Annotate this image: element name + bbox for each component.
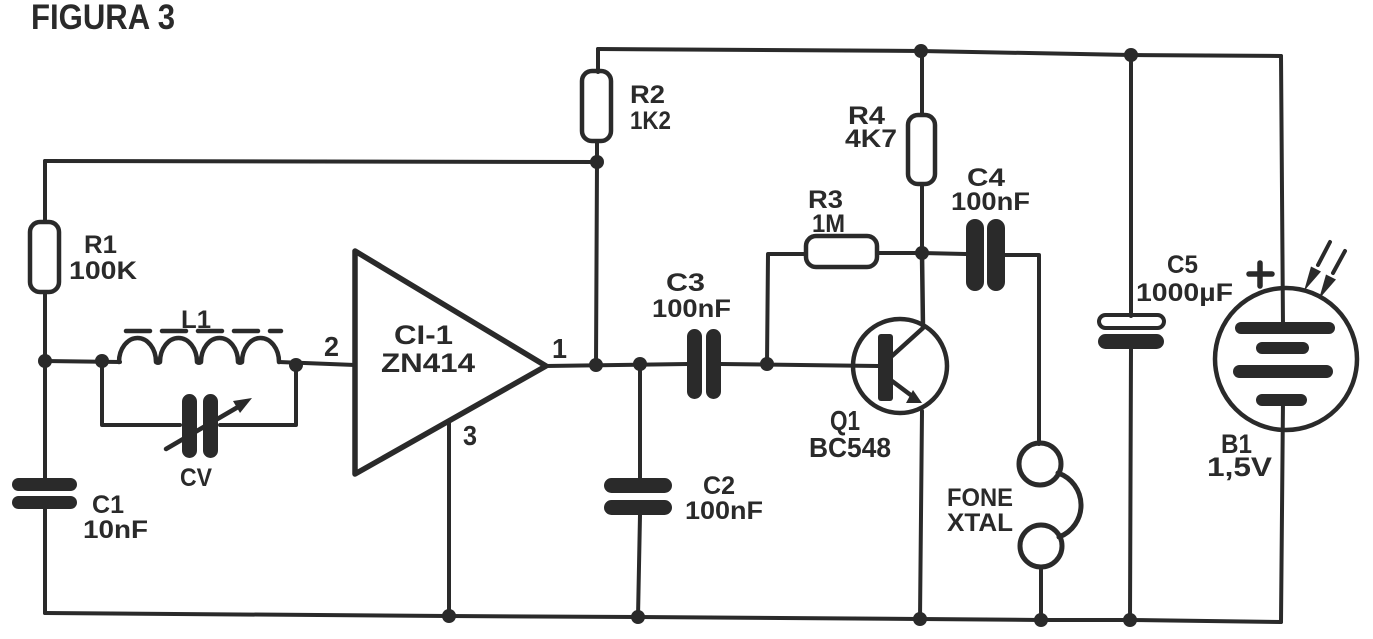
wire R4 top lead (920, 51, 924, 115)
node emitter ground junction (913, 612, 927, 626)
svg-text:100nF: 100nF (685, 497, 763, 525)
svg-text:C5: C5 (1167, 251, 1198, 279)
node collector junction (915, 246, 929, 260)
wire C5 top lead (1129, 55, 1133, 316)
resistor R4 (908, 115, 935, 184)
svg-text:FIGURA 3: FIGURA 3 (31, 0, 175, 37)
B1 light arrow 1 (1318, 242, 1330, 265)
node C2 ground junction (631, 610, 645, 624)
earphone FONE XTAL bottom shell (1020, 525, 1062, 567)
wire B1 bottom lead (1281, 400, 1283, 622)
svg-text:CI-1: CI-1 (394, 320, 453, 350)
capacitor C2 (604, 478, 672, 515)
earphone connecting band (1058, 473, 1081, 537)
svg-text:1: 1 (552, 333, 567, 364)
node CV right junction (289, 358, 303, 372)
node C5 supply junction (1124, 48, 1138, 62)
wire R4 bottom lead (920, 184, 924, 253)
node R4 supply junction (914, 44, 928, 58)
svg-text:1,5V: 1,5V (1207, 452, 1272, 482)
svg-text:100K: 100K (69, 257, 137, 285)
resistor R3 (806, 236, 877, 267)
wire R1 top lead (43, 161, 47, 222)
svg-text:C3: C3 (666, 269, 705, 297)
wire bias horizontal to R1 (45, 161, 597, 162)
node C5 ground junction (1123, 613, 1137, 627)
L1 dashed line (126, 329, 281, 334)
wire B1 top lead (1281, 56, 1283, 327)
wire C1 bottom lead (43, 509, 47, 613)
resistor R1 (30, 222, 59, 292)
capacitor C3 (687, 329, 721, 399)
svg-text:CV: CV (180, 464, 212, 492)
B1 light arrow 2 (1333, 251, 1345, 273)
capacitor C1 (12, 478, 77, 509)
capacitor C4 (966, 219, 1005, 291)
wire R3 left riser (767, 254, 806, 364)
svg-text:1K2: 1K2 (630, 107, 671, 135)
wire pin 1 output (546, 364, 688, 366)
svg-text:R1: R1 (84, 231, 117, 259)
svg-text:4K7: 4K7 (845, 125, 897, 153)
svg-text:L1: L1 (181, 306, 211, 334)
svg-text:3: 3 (463, 420, 477, 451)
wire C4 right lead to earphone (1005, 255, 1039, 444)
transistor Q1 (853, 319, 947, 413)
wire pin 3 to ground (447, 421, 451, 616)
node pin3 ground junction (442, 609, 456, 623)
node R3 bottom junction (760, 357, 774, 371)
Q1 base bar (878, 334, 893, 401)
node output/R2 junction (589, 358, 603, 372)
svg-text:XTAL: XTAL (947, 509, 1013, 537)
wire CV right branch (220, 365, 296, 425)
node CV left junction (95, 354, 109, 368)
svg-text:10nF: 10nF (83, 516, 148, 544)
svg-text:1M: 1M (812, 210, 845, 238)
wire earphone bottom to ground (1039, 567, 1043, 620)
capacitor C5 electrolytic (1099, 315, 1164, 328)
svg-text:C1: C1 (92, 491, 124, 519)
earphone FONE XTAL top shell (1019, 443, 1061, 485)
node R2/R1 bias junction (590, 155, 604, 169)
Q1 emitter lead (892, 381, 912, 396)
wire R1 bottom lead (43, 292, 47, 361)
svg-text:R2: R2 (630, 81, 665, 109)
resistor R2 (582, 71, 611, 141)
wire Q1 emitter to ground (920, 411, 922, 619)
svg-text:2: 2 (324, 331, 339, 362)
wire R3 right lead (877, 251, 922, 255)
wire C2 bottom lead (638, 515, 640, 617)
B1 plate bars (1233, 322, 1335, 406)
wire R2 junction to output (596, 162, 597, 365)
battery B1 solar cell outline (1215, 288, 1357, 430)
variable capacitor CV (182, 394, 218, 458)
wire CV left branch (102, 361, 180, 425)
wire C1 top lead (43, 361, 47, 480)
svg-text:FONE: FONE (947, 484, 1013, 512)
wire top supply rail (598, 49, 1281, 56)
wire tank line right to pin 2 (279, 362, 355, 365)
op-amp U1 CI-1 ZN414 triangle (355, 251, 546, 474)
wire C5 bottom lead (1130, 348, 1131, 620)
inductor L1 (119, 338, 279, 363)
wire tank line left (45, 361, 120, 362)
svg-text:100nF: 100nF (951, 188, 1030, 216)
wire R2 top lead (596, 49, 600, 72)
node C2 top junction (633, 357, 647, 371)
svg-text:100nF: 100nF (652, 295, 731, 323)
wire R2 bottom lead (595, 141, 599, 162)
wire C4 left lead (922, 253, 966, 254)
node tank left junction (38, 354, 52, 368)
node earphone ground junction (1034, 613, 1048, 627)
B1 plus label (1249, 271, 1272, 277)
wire C3 to Q1 base (721, 364, 878, 366)
Q1 collector lead (892, 253, 923, 356)
svg-text:BC548: BC548 (809, 432, 891, 463)
CV arrow (166, 407, 238, 449)
svg-text:ZN414: ZN414 (381, 348, 475, 378)
wire bottom ground rail (45, 613, 1281, 622)
svg-text:C2: C2 (703, 472, 735, 500)
wire C2 top lead (638, 364, 642, 480)
svg-text:1000µF: 1000µF (1136, 279, 1233, 307)
